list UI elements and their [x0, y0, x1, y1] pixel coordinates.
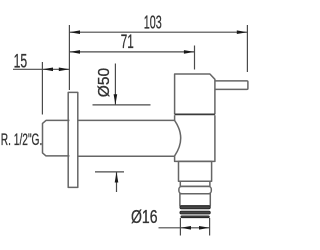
dia16 right arrow: [199, 226, 210, 230]
dimension graphics: [13, 25, 247, 236]
bonnet upper body: [175, 74, 215, 114]
dia50 bottom ext line: [95, 171, 124, 173]
103 right arrow: [237, 30, 248, 34]
object outlines: [43, 74, 248, 206]
svg-text:71: 71: [121, 31, 134, 53]
dia16 ext right: [209, 218, 211, 236]
wall flange disc: [68, 92, 78, 187]
15 left arrow: [42, 68, 53, 72]
svg-text:Ø50: Ø50: [96, 68, 113, 98]
joint line bonnet/body: [175, 113, 215, 115]
collar below body: [179, 161, 212, 181]
svg-text:R. 1/2"G.: R. 1/2"G.: [1, 131, 43, 149]
dim line 103: [69, 31, 247, 33]
dia50 down arrow: [114, 94, 118, 105]
svg-text:Ø16: Ø16: [131, 207, 158, 227]
dim line dia16: [159, 227, 210, 229]
dia16 ext left: [179, 218, 181, 236]
arrowheads: [42, 30, 247, 229]
dim line 71: [69, 51, 194, 53]
dim line 15: [13, 68, 69, 70]
lower body with pipe junction arc: [175, 115, 215, 161]
103 left arrow: [69, 30, 80, 34]
ext line 71-right: [194, 46, 196, 70]
bottom rim band: [181, 216, 209, 218]
neck: [180, 181, 210, 186]
dia50 top leader: [114, 64, 116, 105]
dia50 top ext line: [93, 104, 151, 106]
main horizontal pipe bottom edge: [78, 155, 175, 157]
svg-text:103: 103: [144, 12, 162, 33]
dia16 left arrow: [180, 226, 191, 230]
15 right arrow: [59, 68, 70, 72]
ext line 103-right: [246, 25, 248, 72]
lever handle: [215, 81, 248, 90]
dia50 bottom leader: [116, 172, 118, 192]
ext line wall plane shared: [68, 25, 70, 90]
71 right arrow: [184, 50, 195, 54]
main horizontal pipe top edge: [78, 119, 175, 121]
rear threaded pipe stub R 1/2 G: [43, 120, 70, 155]
o-ring band 1: [180, 206, 210, 209]
71 left arrow: [69, 50, 80, 54]
bulge ring: [179, 186, 211, 193]
svg-text:15: 15: [14, 50, 28, 72]
ext line 15-left: [41, 62, 43, 115]
dia50 up arrow: [115, 172, 119, 183]
o-ring band 2: [180, 211, 210, 214]
barrel: [180, 194, 210, 206]
